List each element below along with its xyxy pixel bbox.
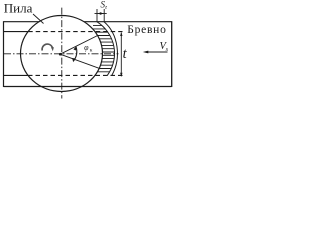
wire log right edge <box>171 21 173 87</box>
feed velocity arrow shaft <box>148 51 168 53</box>
wire log bottom edge <box>4 86 172 88</box>
dimension t arrow top <box>120 32 122 36</box>
wire log top edge right segment <box>84 21 172 23</box>
feed velocity arrow <box>143 51 149 54</box>
leader line from Pila label <box>33 14 44 24</box>
tooth trajectory arc A <box>97 22 115 76</box>
dimension Sz line <box>95 13 107 15</box>
tooth trajectory rungs in kerf band <box>93 26 116 72</box>
dimension t line <box>120 33 122 77</box>
dimension Sz extension line right <box>103 9 105 22</box>
angle arc arrow upper <box>73 46 76 50</box>
svg-text:Пила: Пила <box>4 1 33 16</box>
svg-text:φ: φ <box>84 43 89 52</box>
vertex dot <box>59 53 62 56</box>
angle ray lower <box>60 54 99 68</box>
wire log top edge left segment <box>4 21 40 23</box>
wire vertical centerline <box>61 8 63 99</box>
node kerf top line solid left <box>4 31 29 33</box>
node kerf bottom line solid left <box>4 74 29 76</box>
dimension Sz arrow right <box>100 12 104 14</box>
dimension t arrow bottom <box>120 73 122 77</box>
saw blade circle <box>21 16 103 92</box>
dimension Sz arrow left <box>97 12 101 14</box>
node kerf bottom line dashed <box>28 74 123 76</box>
angle ray upper <box>60 36 97 55</box>
wire log left edge <box>3 21 5 87</box>
rotation direction arrow <box>42 44 53 51</box>
angle arc phi_k <box>73 47 76 61</box>
dimension Sz extension line left <box>96 9 98 22</box>
wire horizontal centerline <box>4 53 119 55</box>
angle arc arrow lower <box>72 58 75 62</box>
node kerf top line dashed <box>28 31 122 33</box>
rotation arrow head <box>51 47 54 51</box>
svg-text:к: к <box>90 48 93 54</box>
tooth trajectory arc B outer <box>104 22 117 76</box>
svg-text:Бревно: Бревно <box>127 24 166 36</box>
